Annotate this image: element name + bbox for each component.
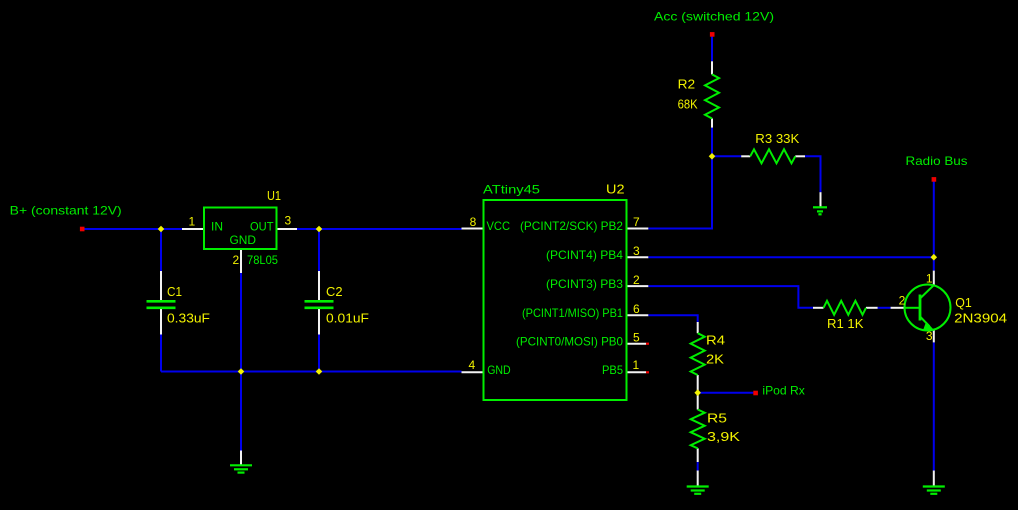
svg-text:B+ (constant 12V): B+ (constant 12V) [10,203,122,217]
svg-text:3,9K: 3,9K [707,429,740,444]
svg-text:4: 4 [469,358,476,372]
svg-text:3: 3 [285,213,292,227]
svg-text:(PCINT4) PB4: (PCINT4) PB4 [546,248,623,262]
svg-text:OUT: OUT [250,219,274,233]
svg-text:U1: U1 [267,188,281,203]
svg-text:Radio Bus: Radio Bus [906,154,968,168]
svg-text:Acc (switched 12V): Acc (switched 12V) [654,9,774,23]
svg-text:(PCINT0/MOSI) PB0: (PCINT0/MOSI) PB0 [516,334,623,348]
svg-text:GND: GND [230,233,257,247]
svg-text:8: 8 [470,215,477,229]
svg-text:5: 5 [633,330,640,344]
svg-text:2: 2 [633,273,640,287]
svg-text:PB5: PB5 [602,363,623,377]
svg-text:ATtiny45: ATtiny45 [483,183,540,197]
svg-text:(PCINT2/SCK) PB2: (PCINT2/SCK) PB2 [520,219,623,233]
svg-text:1: 1 [633,358,640,372]
svg-text:U2: U2 [606,182,625,197]
svg-text:1: 1 [926,271,933,285]
svg-text:2K: 2K [706,352,724,367]
svg-text:GND: GND [487,363,511,377]
svg-text:6: 6 [633,302,640,316]
svg-text:C2: C2 [326,284,343,299]
svg-text:3: 3 [633,244,640,258]
svg-text:1: 1 [189,214,196,228]
svg-text:Q1: Q1 [955,295,972,310]
svg-text:0.01uF: 0.01uF [326,311,369,326]
svg-text:3: 3 [926,329,933,343]
svg-text:68K: 68K [678,96,698,111]
svg-text:7: 7 [633,215,640,229]
svg-text:R1 1K: R1 1K [827,316,864,331]
svg-text:78L05: 78L05 [247,253,278,267]
svg-text:2: 2 [233,253,240,267]
svg-text:R3 33K: R3 33K [755,131,799,146]
svg-text:iPod Rx: iPod Rx [762,383,805,397]
svg-text:(PCINT1/MISO) PB1: (PCINT1/MISO) PB1 [522,306,623,320]
svg-text:(PCINT3) PB3: (PCINT3) PB3 [546,277,623,291]
svg-text:R4: R4 [706,333,725,348]
svg-text:0.33uF: 0.33uF [167,311,210,326]
svg-text:VCC: VCC [487,219,511,233]
svg-text:R5: R5 [707,411,727,426]
svg-text:R2: R2 [678,77,696,92]
svg-text:2N3904: 2N3904 [954,310,1007,325]
svg-text:C1: C1 [167,284,182,299]
svg-text:IN: IN [211,219,223,233]
svg-text:2: 2 [899,294,906,308]
